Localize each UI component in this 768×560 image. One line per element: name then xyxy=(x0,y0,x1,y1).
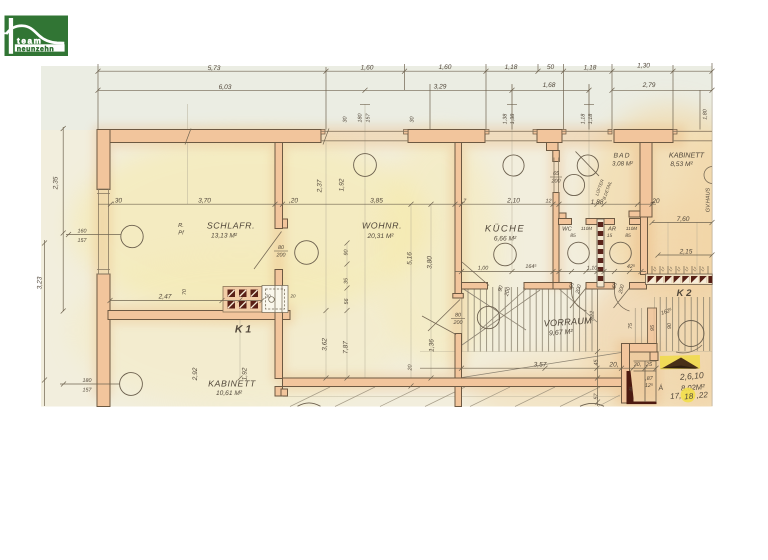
svg-text:,22: ,22 xyxy=(696,390,708,400)
wall left upper xyxy=(97,130,110,190)
wall top segment A xyxy=(97,130,321,143)
svg-text:WC: WC xyxy=(562,226,572,233)
scan right edge xyxy=(711,90,713,406)
svg-text:80: 80 xyxy=(455,313,461,319)
wall top pier C xyxy=(537,130,562,143)
wall wc west xyxy=(553,193,559,283)
construction horizontal vorraum lower xyxy=(420,351,712,353)
wall wc west foot xyxy=(553,283,572,290)
fixture circle ar xyxy=(610,242,632,264)
construction vertical wohn mid xyxy=(346,243,348,378)
wall kueche west foot xyxy=(453,294,464,299)
construction vertical wohn window axis xyxy=(364,104,366,378)
svg-text:3,62: 3,62 xyxy=(322,338,329,351)
svg-text:180: 180 xyxy=(83,378,92,384)
svg-text:GV.HAUS: GV.HAUS xyxy=(706,188,712,213)
wall pier C stem xyxy=(547,143,559,151)
svg-text:200: 200 xyxy=(276,253,286,259)
svg-text:3,85: 3,85 xyxy=(370,198,383,205)
wall pier C stub xyxy=(553,151,560,162)
svg-text:7,87: 7,87 xyxy=(343,341,350,354)
door swing wohn-vorraum xyxy=(428,300,460,332)
yellow circle highlight xyxy=(681,388,696,403)
svg-text:KABINETT: KABINETT xyxy=(208,379,256,389)
dim slashes crossing top wall xyxy=(185,129,329,145)
stair outline bottom right xyxy=(634,361,657,402)
construction vertical kabinett bottom xyxy=(239,300,241,378)
svg-text:75: 75 xyxy=(628,322,634,329)
main drawing placeholder groups filled below xyxy=(188,85,713,397)
svg-text:R.: R. xyxy=(178,223,184,229)
svg-text:7,60: 7,60 xyxy=(677,216,690,223)
dim ticks 1,92 vertical xyxy=(238,298,243,381)
kachelofen K1 block xyxy=(223,287,262,313)
fixture circle kabinett bottom xyxy=(120,373,143,396)
svg-text:2,10: 2,10 xyxy=(506,198,520,205)
wall wohn south xyxy=(283,378,622,387)
svg-text:,20: ,20 xyxy=(289,198,298,205)
window wc west opening lines xyxy=(553,158,555,193)
shaft strip wc-ar xyxy=(597,219,604,287)
wall kueche south east piece xyxy=(524,283,559,290)
logo team neunzehn xyxy=(3,16,68,57)
wall top segment D xyxy=(614,130,673,143)
window left wall lines xyxy=(98,189,100,274)
svg-text:1,60: 1,60 xyxy=(439,64,452,71)
wall kueche south west piece xyxy=(462,283,488,290)
svg-text:3,80: 3,80 xyxy=(427,256,434,269)
fixture circle wc xyxy=(568,242,590,264)
svg-text:30: 30 xyxy=(343,117,349,123)
svg-text:17,: 17, xyxy=(670,391,682,401)
wall left lower xyxy=(97,274,110,407)
dim line left vertical 2,35 xyxy=(62,127,64,311)
fixture circle kueche top xyxy=(503,155,524,176)
svg-text:2,47: 2,47 xyxy=(158,294,172,301)
dim leader schlaf circle xyxy=(66,234,121,236)
door swing schlaf xyxy=(254,232,282,270)
fixture circle kueche xyxy=(494,243,517,266)
svg-text:157: 157 xyxy=(366,113,372,123)
fixture circle schlaf left xyxy=(121,225,143,247)
svg-text:25: 25 xyxy=(645,362,653,368)
wall wc-ar north piers xyxy=(559,219,572,225)
svg-text:18: 18 xyxy=(684,392,694,402)
wall schlafzimmer south xyxy=(108,311,290,320)
K1 door box xyxy=(262,286,288,313)
svg-text:157: 157 xyxy=(78,238,88,244)
svg-text:45: 45 xyxy=(628,386,633,392)
construction vertical bad window axis xyxy=(588,85,590,271)
svg-text:70: 70 xyxy=(182,289,188,295)
wall kueche west upper xyxy=(455,143,462,294)
svg-text:90: 90 xyxy=(667,323,673,329)
svg-text:90: 90 xyxy=(344,250,350,256)
wall bad-kabinett notch xyxy=(629,211,640,217)
svg-text:65: 65 xyxy=(553,171,560,177)
wall divider below south wall xyxy=(275,387,283,397)
door swing kabinett right arc xyxy=(704,167,712,184)
svg-text:1,10: 1,10 xyxy=(587,266,598,272)
svg-text:5,73: 5,73 xyxy=(208,65,221,72)
svg-text:57: 57 xyxy=(594,393,600,400)
wall vorraum east xyxy=(622,344,630,404)
dim line vorraum y368 xyxy=(420,367,656,369)
svg-text:200: 200 xyxy=(551,179,561,185)
svg-text:WOHNR.: WOHNR. xyxy=(362,221,402,231)
fixture circle bad lower xyxy=(563,174,584,195)
svg-text:2,15: 2,15 xyxy=(679,249,693,256)
construction horizontal loggia mid xyxy=(283,396,620,398)
svg-text:5,16: 5,16 xyxy=(407,252,414,265)
svg-text:BAD: BAD xyxy=(614,153,631,160)
svg-text:3,23: 3,23 xyxy=(37,276,44,289)
svg-text:110M: 110M xyxy=(581,226,592,231)
svg-text:42⁵: 42⁵ xyxy=(627,264,636,270)
door swing wc xyxy=(571,289,586,311)
svg-text:1,80: 1,80 xyxy=(703,109,709,120)
svg-text:180: 180 xyxy=(358,114,364,123)
svg-text:K 2: K 2 xyxy=(677,288,693,299)
dark triangle marker xyxy=(663,358,699,369)
hatch vorraum right small xyxy=(633,308,654,349)
svg-text:1,38: 1,38 xyxy=(510,114,516,125)
door swing vorraum right arc xyxy=(676,345,702,353)
svg-text:20,31 M²: 20,31 M² xyxy=(366,233,394,240)
fixture circle vorraum right xyxy=(678,321,704,347)
window top opening 3 xyxy=(562,130,612,132)
svg-text:6,03: 6,03 xyxy=(219,84,232,91)
svg-text:110M: 110M xyxy=(626,226,637,231)
svg-text:3,57: 3,57 xyxy=(534,362,547,369)
hatch vorraum main vertical lines xyxy=(462,287,596,352)
dim line top row1 xyxy=(98,70,712,72)
dark wall wedge bottom right xyxy=(627,371,634,403)
svg-text:95: 95 xyxy=(650,324,656,331)
hatch loggia diagonals xyxy=(290,387,620,407)
tiny 17 ticks labels xyxy=(651,265,706,272)
window top opening 4 xyxy=(673,130,712,132)
svg-text:15: 15 xyxy=(607,233,613,239)
svg-text:1,92: 1,92 xyxy=(339,178,346,191)
wall divider schlaf-wohn lower xyxy=(275,270,283,379)
fixture circle bad top xyxy=(577,155,598,176)
wall kueche west lower xyxy=(455,334,462,379)
window left sill marks xyxy=(97,188,110,190)
svg-text:2,37: 2,37 xyxy=(317,179,324,193)
svg-text:3,29: 3,29 xyxy=(434,84,447,91)
dim line vorraum right vertical x597 xyxy=(597,289,599,406)
svg-text:1,30: 1,30 xyxy=(637,63,650,70)
fixture arc bottom edge 1 xyxy=(298,403,321,406)
svg-text:1,60: 1,60 xyxy=(361,65,374,72)
dim ticks wohn mid verticals xyxy=(324,241,434,389)
wall corner mass right xyxy=(630,344,658,353)
svg-text:3,70: 3,70 xyxy=(198,198,211,205)
svg-text:,20: ,20 xyxy=(650,198,659,205)
wall kueche west below south xyxy=(455,387,462,407)
construction vertical wohn left xyxy=(325,142,327,378)
construction vertical kueche window axis xyxy=(511,85,513,271)
svg-text:1,38: 1,38 xyxy=(503,114,509,125)
svg-text:56: 56 xyxy=(344,299,350,305)
svg-text:1,18: 1,18 xyxy=(581,114,587,125)
svg-text:1,00: 1,00 xyxy=(478,266,489,272)
wall vorraum right divider xyxy=(648,308,657,352)
svg-text:3,08 M²: 3,08 M² xyxy=(612,161,634,168)
svg-text:45: 45 xyxy=(594,359,600,366)
hatch vorraum right vertical lines xyxy=(654,297,712,351)
svg-text:2,79: 2,79 xyxy=(642,82,656,89)
svg-text:2,35: 2,35 xyxy=(53,176,60,190)
svg-text:1,68: 1,68 xyxy=(543,82,556,89)
svg-text:1,36: 1,36 xyxy=(429,339,436,352)
svg-text:85: 85 xyxy=(570,233,576,239)
svg-text:20: 20 xyxy=(408,365,414,372)
svg-text:13,13 M²: 13,13 M² xyxy=(211,233,238,240)
wall wc-ar south piers xyxy=(586,283,615,290)
window top opening 1 xyxy=(321,130,408,132)
svg-text:1,18: 1,18 xyxy=(588,114,594,125)
dim line interior horizontal y271 xyxy=(455,271,646,273)
dim line kabinett bottom 2,47 xyxy=(110,300,262,302)
wall watercolor halos xyxy=(93,125,685,405)
dim connectors top verticals xyxy=(98,63,712,130)
svg-text:neunzehn: neunzehn xyxy=(17,45,54,53)
dim line top row2 xyxy=(98,89,589,91)
svg-text:157: 157 xyxy=(83,388,93,394)
yellow marker band xyxy=(660,355,700,370)
window top opening 2 xyxy=(485,130,537,132)
construction vertical schlaf mid xyxy=(187,104,189,204)
wall divider schlaf-wohn upper xyxy=(275,143,283,229)
svg-text:2,92: 2,92 xyxy=(192,367,199,381)
svg-text:team: team xyxy=(17,36,43,45)
svg-text:1,18: 1,18 xyxy=(584,65,597,72)
svg-text:8,53 M²: 8,53 M² xyxy=(670,161,693,168)
svg-text:20: 20 xyxy=(289,294,296,299)
svg-text:12: 12 xyxy=(546,199,552,205)
svg-text:80: 80 xyxy=(278,245,284,251)
fixture circle wohn top xyxy=(354,154,377,177)
svg-text:35: 35 xyxy=(344,277,350,284)
svg-text:AR: AR xyxy=(607,227,617,233)
svg-text:KABINETT: KABINETT xyxy=(669,151,705,160)
dim leader kabinett circle xyxy=(60,383,120,385)
svg-text:KÜCHE: KÜCHE xyxy=(485,223,525,234)
svg-text:,30: ,30 xyxy=(113,198,122,205)
wall divider foot xyxy=(283,219,288,228)
fixture arc bottom edge 2 xyxy=(580,403,604,406)
svg-text:6,66 M²: 6,66 M² xyxy=(494,236,517,243)
K2 threshold squares xyxy=(646,274,713,285)
fixture line bad diagonal xyxy=(576,152,600,177)
svg-text:200: 200 xyxy=(453,320,463,326)
construction vertical right area xyxy=(667,222,669,274)
wall ar east xyxy=(641,217,648,275)
hatch stairs diagonal lines vorraum xyxy=(462,288,621,378)
svg-text:160: 160 xyxy=(78,229,87,235)
svg-text:10,61 M²: 10,61 M² xyxy=(216,390,243,397)
dim line left vertical 3,23 xyxy=(44,240,46,406)
scanned plan background xyxy=(41,66,768,450)
svg-text:164⁵: 164⁵ xyxy=(525,264,537,270)
construction vertical wohn right1 xyxy=(410,204,412,386)
door swing ar xyxy=(614,289,629,311)
svg-text:50: 50 xyxy=(547,64,555,71)
wall bad-kabinett divider xyxy=(640,143,652,218)
svg-text:12⁵: 12⁵ xyxy=(645,383,654,389)
svg-text:,87: ,87 xyxy=(645,376,653,382)
svg-text:20,: 20, xyxy=(608,362,618,369)
dark wall bar bottom xyxy=(627,402,657,405)
svg-text:SCHLAFR.: SCHLAFR. xyxy=(207,221,255,231)
construction vertical wohn right2 xyxy=(430,204,432,378)
dim line interior horizontal y204 xyxy=(98,203,656,205)
fixture circle vorraum left xyxy=(477,306,499,328)
wall top segment B xyxy=(408,130,485,143)
dim line kabinett right y222 xyxy=(652,222,712,224)
door swing kueche xyxy=(462,262,489,286)
fixture circle wohn door xyxy=(295,241,319,265)
svg-text:K 1: K 1 xyxy=(235,324,252,336)
svg-text:85: 85 xyxy=(625,233,631,239)
dim tick ladder kabinett steps xyxy=(652,266,708,274)
svg-text:30,: 30, xyxy=(634,362,642,368)
dim line kabinett right y255 xyxy=(658,254,712,256)
svg-text:30: 30 xyxy=(410,117,416,123)
wall end flanges at window jambs xyxy=(321,130,677,135)
svg-text:1,88: 1,88 xyxy=(591,199,604,206)
svg-text:1,18: 1,18 xyxy=(505,64,518,71)
svg-text:30: 30 xyxy=(265,294,271,299)
wall wc west bump xyxy=(559,213,566,224)
dim short line window axis xyxy=(360,103,594,105)
